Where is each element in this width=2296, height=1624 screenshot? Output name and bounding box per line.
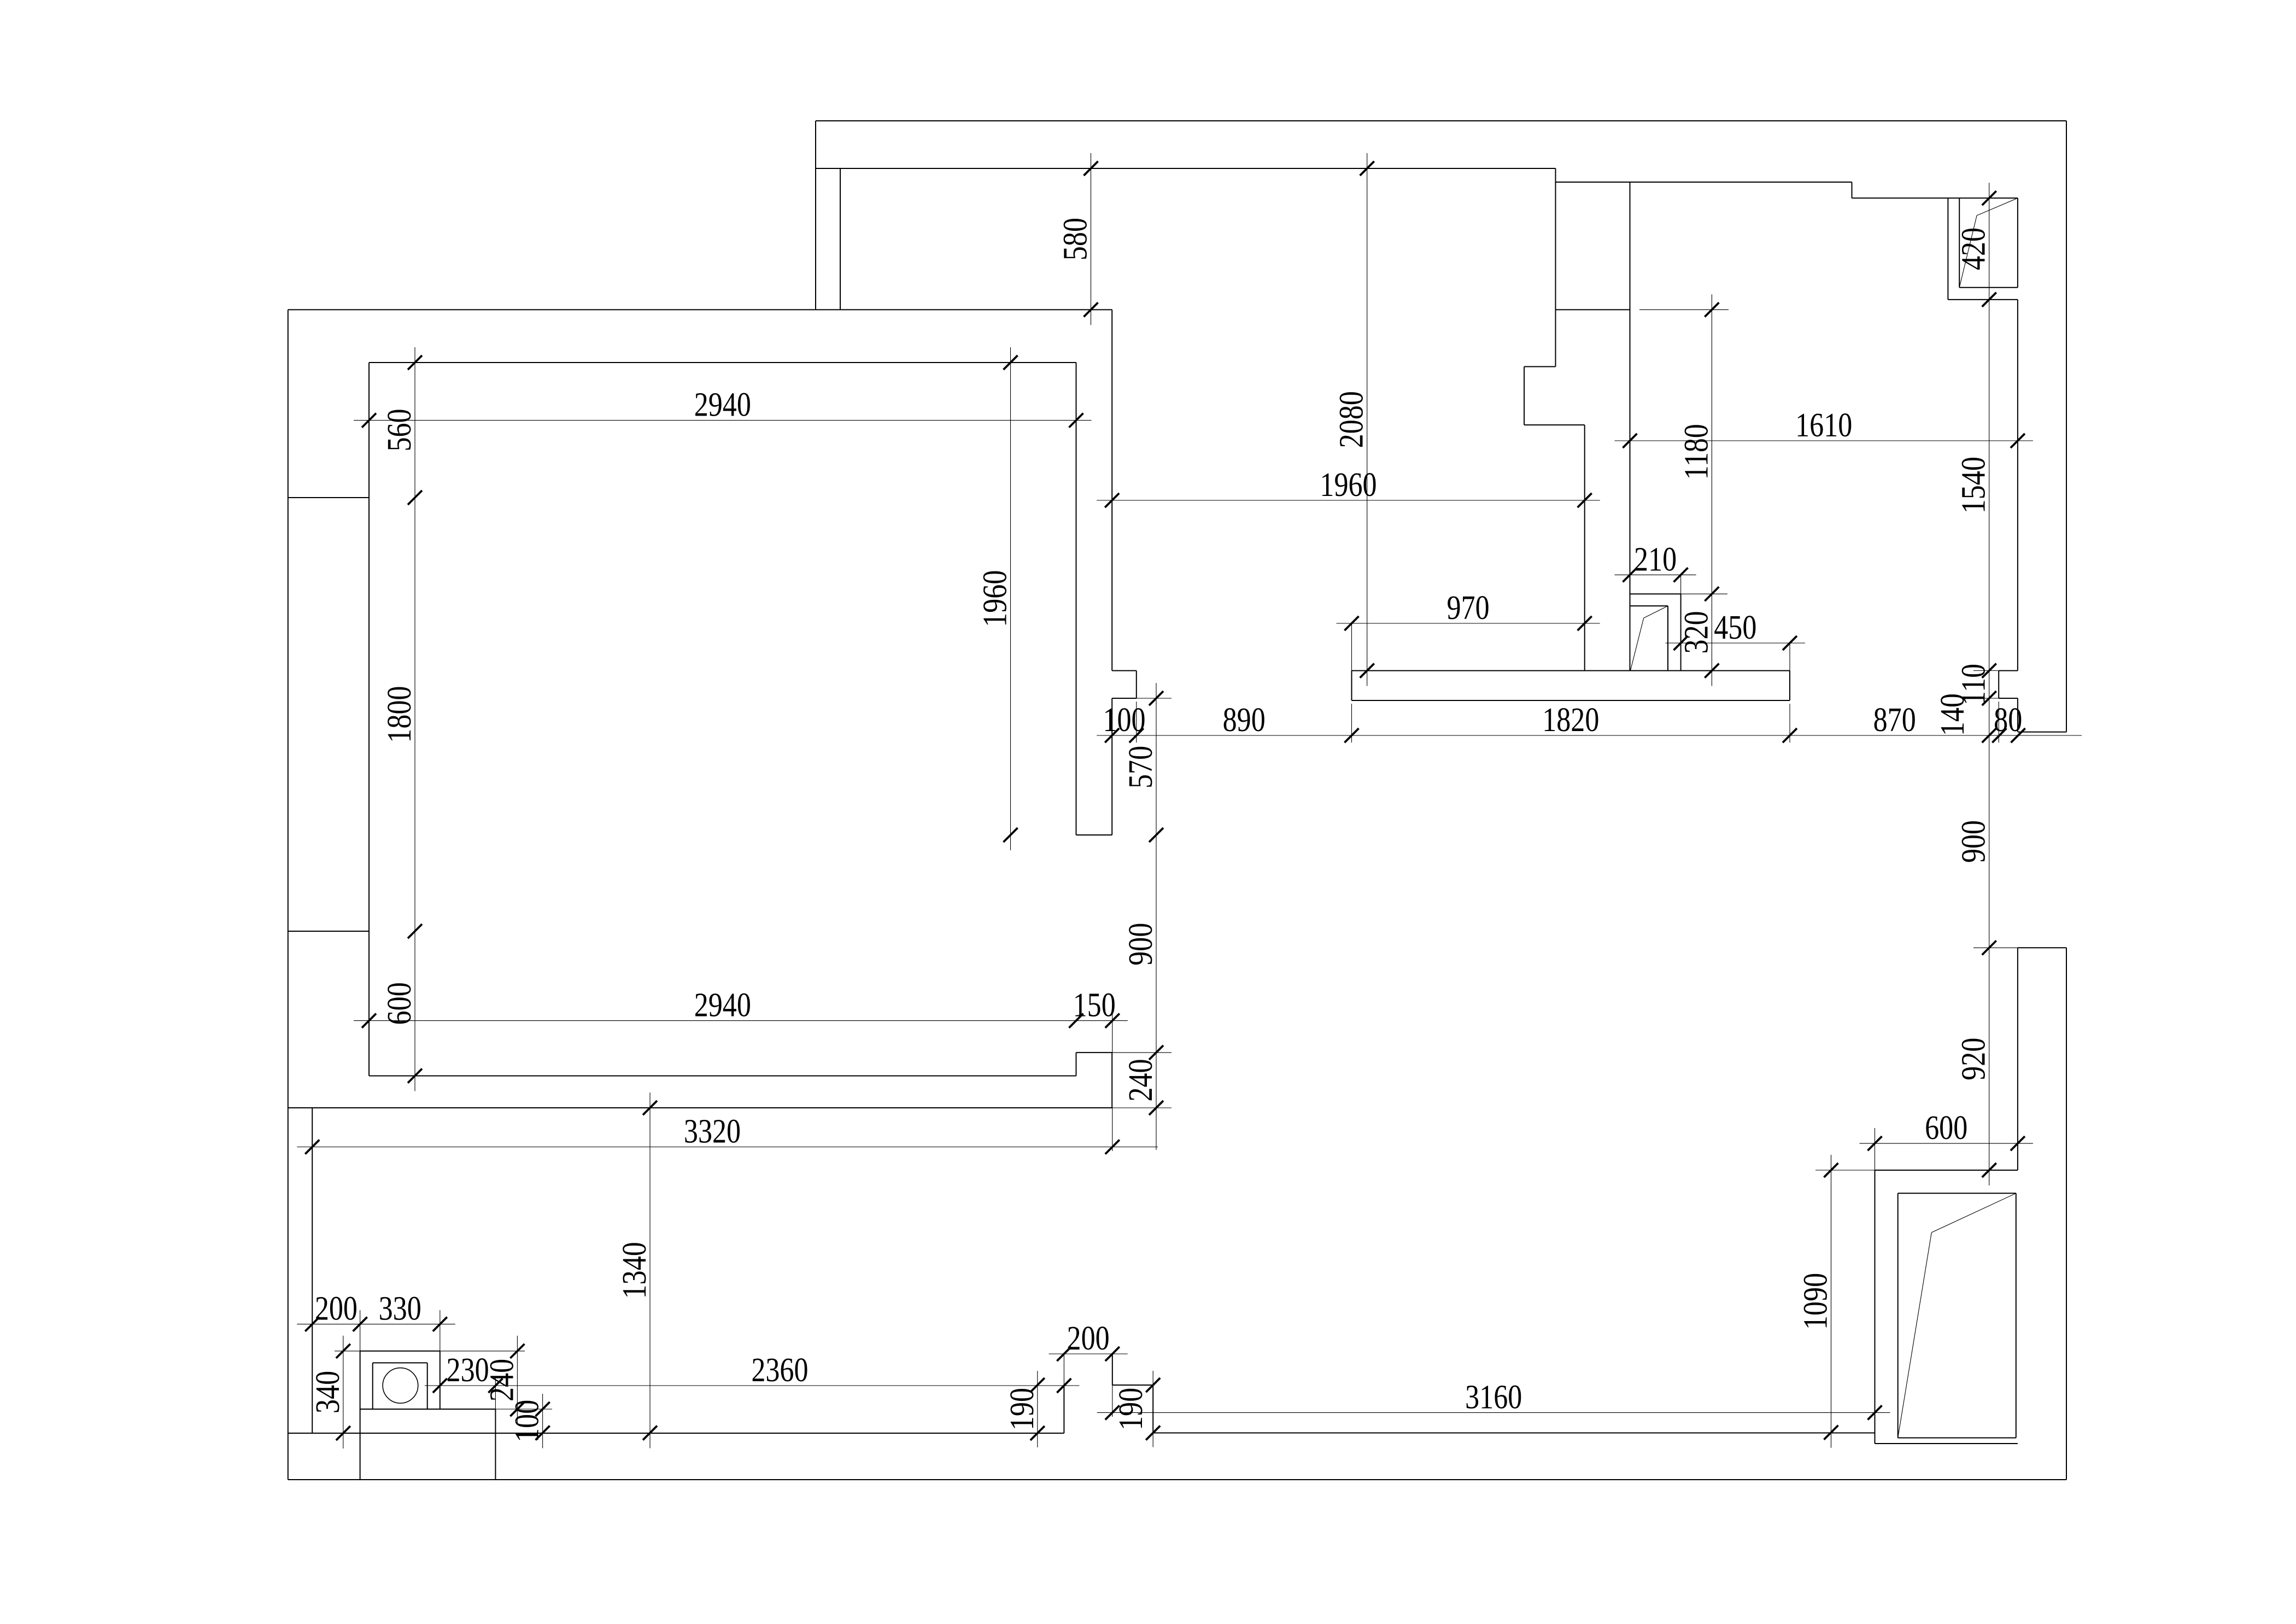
svg-text:3160: 3160	[1465, 1378, 1522, 1416]
svg-text:240: 240	[1122, 1059, 1159, 1101]
svg-text:420: 420	[1955, 227, 1993, 270]
svg-text:900: 900	[1122, 923, 1159, 966]
svg-text:900: 900	[1955, 820, 1993, 863]
svg-text:330: 330	[379, 1290, 421, 1327]
svg-text:2080: 2080	[1333, 391, 1370, 448]
svg-text:3320: 3320	[684, 1113, 741, 1150]
svg-text:150: 150	[1073, 986, 1116, 1024]
svg-text:580: 580	[1057, 218, 1094, 260]
svg-text:890: 890	[1223, 702, 1266, 739]
svg-text:230: 230	[447, 1352, 489, 1389]
svg-text:1960: 1960	[976, 570, 1014, 627]
svg-text:2360: 2360	[751, 1352, 808, 1389]
svg-text:2940: 2940	[694, 387, 751, 424]
svg-text:1960: 1960	[1320, 466, 1377, 504]
svg-text:200: 200	[1067, 1320, 1110, 1357]
svg-text:140: 140	[1934, 693, 1971, 736]
svg-text:2940: 2940	[694, 986, 751, 1024]
svg-text:450: 450	[1714, 609, 1756, 646]
svg-text:190: 190	[1112, 1388, 1150, 1430]
svg-text:240: 240	[483, 1359, 520, 1401]
svg-text:1610: 1610	[1795, 407, 1852, 444]
svg-text:600: 600	[1925, 1109, 1967, 1147]
svg-text:920: 920	[1955, 1038, 1993, 1080]
svg-text:190: 190	[1004, 1388, 1041, 1430]
svg-text:600: 600	[381, 982, 418, 1025]
svg-text:1090: 1090	[1797, 1273, 1834, 1330]
svg-text:1340: 1340	[616, 1242, 653, 1299]
svg-text:320: 320	[1678, 611, 1715, 653]
svg-text:1180: 1180	[1678, 424, 1715, 480]
svg-text:340: 340	[309, 1371, 347, 1413]
svg-text:1540: 1540	[1955, 457, 1993, 513]
svg-text:1800: 1800	[381, 686, 418, 743]
svg-text:100: 100	[508, 1400, 546, 1442]
svg-text:560: 560	[381, 408, 418, 451]
svg-text:1820: 1820	[1542, 702, 1599, 739]
svg-text:80: 80	[1994, 702, 2022, 739]
svg-text:570: 570	[1122, 746, 1159, 788]
svg-text:200: 200	[315, 1290, 358, 1327]
svg-text:870: 870	[1873, 702, 1916, 739]
svg-text:210: 210	[1634, 541, 1677, 578]
svg-text:100: 100	[1103, 702, 1145, 739]
svg-text:970: 970	[1447, 589, 1490, 627]
